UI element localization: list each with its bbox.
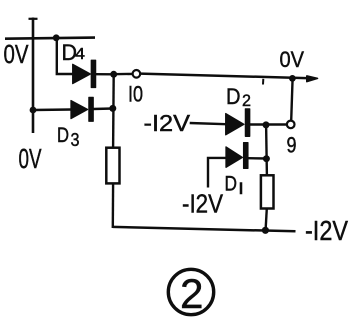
junction dot D1 cathode node (263, 155, 270, 162)
wire: D4 cathode to node (96, 73, 114, 76)
wire: vertical from 0V line down to terminal 9 (291, 78, 292, 120)
wire: long 0V line to the right (140, 74, 310, 79)
diode D3 (71, 97, 93, 121)
wire: left vertical rail (32, 18, 35, 134)
svg-text:4: 4 (75, 46, 85, 63)
wire: below right resistor (266, 208, 267, 229)
junction dot D3 cathode node (109, 105, 116, 112)
svg-text:D: D (226, 84, 241, 109)
wire: drop from node A down and right to D4 anode (57, 38, 73, 74)
svg-text:9: 9 (287, 133, 297, 158)
resistor R-left (106, 148, 119, 184)
junction dot D2 cathode node (263, 121, 270, 128)
wire: D3 cathode to vertical (93, 107, 113, 110)
svg-text:0V: 0V (19, 143, 42, 174)
junction dot node A (top-left) (53, 34, 60, 41)
junction dot on 0V line above terminal 9 (289, 75, 296, 82)
svg-text:2: 2 (242, 91, 251, 110)
svg-text:-I2V: -I2V (182, 189, 224, 219)
svg-text:D: D (225, 173, 238, 196)
terminal circle node 9 (287, 121, 295, 129)
wire: node 9 vertical down to resistor (265, 125, 268, 176)
wire: vertical from node 10 down through D3 node to resistor (112, 74, 115, 148)
svg-text:I: I (238, 179, 244, 198)
arrowhead at right end of 0V line (307, 76, 318, 82)
figure number circle 2 (168, 269, 213, 314)
resistor R-right (261, 175, 274, 208)
diode D4 (73, 60, 96, 87)
svg-text:2: 2 (180, 270, 204, 317)
svg-text:D: D (57, 124, 69, 147)
svg-text:I0: I0 (128, 82, 143, 107)
junction dot bottom line / resistor (262, 227, 269, 234)
terminal circle node 10 (133, 70, 141, 78)
wire: -12V feed to D2 anode (190, 123, 226, 124)
svg-text:3: 3 (71, 130, 80, 150)
wire: D3 anode from left rail (33, 108, 71, 111)
diode D1 (226, 143, 248, 169)
wire: bottom -12V line (113, 227, 296, 231)
wire: tick at top of left rail (29, 18, 38, 20)
wire: left riser from bottom line to resistor (112, 183, 115, 228)
junction dot D4 cathode node (110, 71, 117, 78)
wire: node 10 link (114, 73, 133, 76)
diode D2 (226, 109, 250, 136)
wire: small stub on 0V line (scan mark) (262, 79, 264, 85)
wire: D1 anode bend (208, 158, 226, 188)
svg-text:0V: 0V (4, 39, 30, 69)
wire: D1 cathode to vertical (248, 157, 266, 160)
wire: top-left 0V horizontal line (5, 38, 95, 39)
wire: D2 cathode to terminal 9 (250, 123, 287, 125)
svg-text:-I2V: -I2V (305, 215, 348, 246)
svg-text:-I2V: -I2V (144, 110, 191, 136)
junction dot left rail / D3 anode (30, 107, 37, 114)
svg-text:0V: 0V (280, 47, 305, 72)
